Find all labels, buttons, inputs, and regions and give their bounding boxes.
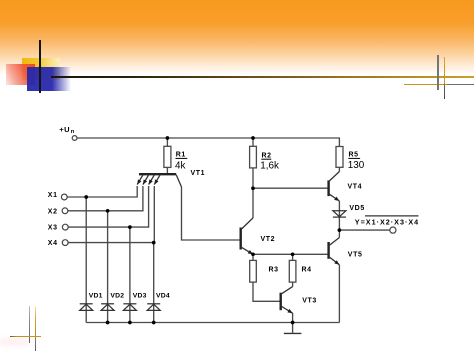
VT2 emitter diagonal — [241, 247, 253, 254]
svg-text:1,6k: 1,6k — [260, 161, 279, 172]
transistor VT1 (multi-emitter) base bar — [139, 173, 176, 175]
terminal +Up — [72, 136, 77, 141]
main horizontal header line — [51, 76, 474, 78]
diode VD4 — [147, 304, 160, 311]
wire: VD3 branch down — [129, 227, 131, 322]
junction node: R4 top — [291, 252, 295, 256]
svg-text:X1: X1 — [48, 192, 58, 199]
bottom-left decoration: gold horizontal line — [10, 336, 41, 337]
VT1 emitter 3 diagonal — [149, 175, 155, 185]
resistor R1 — [164, 146, 171, 167]
bottom-left decoration: faint pink smudge — [0, 338, 30, 346]
svg-text:VD1: VD1 — [89, 292, 103, 299]
blue square core (top-left decoration) — [27, 67, 52, 91]
junction node: VT2 emitter — [251, 252, 255, 256]
wire: VD1 branch down — [85, 197, 87, 323]
wire: R2 top lead — [252, 138, 254, 146]
transistor VT5 base bar — [327, 242, 329, 259]
VT3 emitter arrow — [287, 309, 292, 313]
wire: VT2 emitter node rail to VT5 base — [253, 253, 328, 255]
junction node: R1 at top rail — [166, 136, 170, 140]
VT1 emitter 4 diagonal — [154, 175, 160, 185]
VT3 emitter diagonal — [281, 306, 293, 313]
wire: R3 bottom to VT3 base — [253, 282, 280, 301]
wire: +Up top rail to R5 — [77, 138, 339, 147]
junction node: X3/VD3 — [128, 225, 132, 229]
VT2 collector diagonal — [241, 218, 253, 230]
svg-text:4k: 4k — [175, 160, 185, 171]
wire: output node to terminal Y — [339, 229, 390, 231]
transistor VT2 base bar — [239, 228, 241, 250]
VT4 emitter diagonal — [329, 194, 340, 201]
bottom-left decoration: gray vertical line — [29, 306, 30, 343]
transistor VT3 base bar — [280, 293, 282, 311]
svg-text:VD3: VD3 — [133, 292, 147, 299]
wire: R2 bottom to VT2 collector node — [252, 168, 254, 218]
wire: VT3 emitter to ground rail — [292, 313, 294, 323]
wire: R1 bottom lead to VT1 base — [166, 167, 168, 173]
terminal X2 — [62, 208, 68, 214]
VT1 emitter 4 arrow — [154, 179, 158, 184]
svg-text:п: п — [71, 129, 75, 135]
junction node: output — [338, 228, 342, 232]
svg-text:130: 130 — [348, 160, 365, 171]
VT2 emitter arrow — [248, 250, 253, 254]
wire: VT5 collector vertical to output node — [338, 230, 340, 237]
junction node: R2/VT4 base — [251, 186, 255, 190]
VT1 emitter 3 arrow — [149, 179, 153, 184]
bottom-left decoration: gold vertical line — [35, 307, 36, 351]
resistor R2 — [250, 146, 257, 168]
wire: R1 top lead — [166, 138, 168, 146]
wire: R4 top lead — [292, 254, 294, 260]
svg-text:+U: +U — [59, 125, 70, 134]
svg-text:X3: X3 — [48, 225, 58, 232]
wire: VT4 collector vertical to R5 — [338, 147, 340, 172]
ground symbol bar — [284, 332, 302, 334]
transistor VT4 base bar — [327, 180, 329, 196]
junction node: R2 at top rail — [251, 136, 255, 140]
diode VD2 — [101, 304, 114, 311]
right decoration: gray vertical line — [437, 55, 438, 90]
right decoration: gold/gray vertical line — [444, 57, 445, 99]
fraction line under R1 — [176, 158, 188, 159]
wire: X4 input to emitter 4 — [68, 186, 154, 243]
wire: bottom ground rail — [86, 322, 339, 324]
VT1 collector diagonal — [176, 175, 181, 187]
svg-text:VT5: VT5 — [348, 251, 363, 258]
terminal Y output — [390, 227, 396, 233]
junction node: X4/VD4 — [152, 241, 156, 245]
VT5 emitter diagonal — [329, 257, 340, 265]
svg-text:VD4: VD4 — [156, 292, 170, 299]
junction node: X2/VD2 — [106, 209, 110, 213]
wire: VT1 collector to VT2 base — [182, 187, 240, 240]
resistor R4 — [289, 260, 296, 282]
svg-text:R5: R5 — [349, 152, 359, 159]
svg-text:X2: X2 — [48, 208, 58, 215]
blue square gradient tail — [52, 67, 71, 91]
fraction line under R5 — [348, 158, 360, 159]
junction node: VD3 at rail — [128, 321, 132, 325]
VT1 emitter 1 diagonal — [137, 175, 143, 185]
svg-text:VD5: VD5 — [349, 205, 364, 212]
wire: VD4 branch down — [153, 243, 155, 323]
VT4 collector diagonal — [329, 172, 340, 182]
svg-text:R4: R4 — [302, 267, 312, 274]
orange gradient header background — [0, 0, 474, 90]
VT4 emitter arrow — [334, 197, 339, 201]
VT3 collector diagonal — [281, 287, 293, 295]
resistor R3 — [250, 260, 257, 282]
right decoration: second horizontal line — [404, 84, 474, 85]
svg-text:X4: X4 — [48, 240, 58, 247]
red square (top-left decoration) — [6, 64, 35, 85]
yellow square (top-left decoration) — [22, 58, 60, 80]
svg-text:Y=X1·X2·X3·X4: Y=X1·X2·X3·X4 — [355, 217, 419, 226]
overbar on X1·X2·X3·X4 — [365, 215, 419, 216]
junction node: X1/VD1 — [84, 195, 88, 199]
svg-text:VT3: VT3 — [302, 297, 317, 304]
diode VD1 — [80, 304, 93, 311]
wire: X1 input to emitter 1 — [67, 186, 137, 197]
svg-text:R1: R1 — [176, 151, 186, 158]
svg-text:VT4: VT4 — [348, 183, 363, 190]
wire: VD2 branch down — [107, 211, 109, 323]
wire: VT4 emitter to VD5 to output node — [338, 201, 340, 230]
black vertical line (top-left) — [39, 40, 41, 93]
terminal X4 — [62, 240, 68, 246]
junction node: VD2 at rail — [106, 321, 110, 325]
svg-text:R3: R3 — [269, 267, 279, 274]
VT5 collector diagonal — [329, 238, 340, 246]
svg-text:VT2: VT2 — [261, 236, 276, 243]
svg-text:VT1: VT1 — [191, 170, 206, 177]
terminal X1 — [61, 194, 67, 200]
resistor R5 — [336, 147, 343, 168]
svg-text:R2: R2 — [262, 153, 272, 160]
wire: node under R2 to VT4 base — [253, 187, 328, 189]
VT1 emitter 1 arrow — [137, 179, 141, 184]
junction node: ground at rail — [291, 321, 295, 325]
svg-text:VD2: VD2 — [110, 292, 124, 299]
diode VD5 — [333, 211, 346, 217]
terminal X3 — [62, 224, 68, 230]
VT5 emitter arrow — [334, 260, 339, 265]
diode VD3 — [123, 304, 136, 311]
wire: VT5 emitter down to ground rail — [338, 265, 340, 323]
junction node: VD4 at rail — [152, 321, 156, 325]
wire: X2 input to emitter 2 — [68, 186, 143, 211]
fraction line under R2 — [261, 159, 271, 160]
VT1 emitter 2 diagonal — [143, 175, 149, 185]
wire: ground symbol stem — [292, 323, 294, 333]
wire: R3 top lead — [252, 254, 254, 260]
wire: X3 input to emitter 3 — [68, 186, 148, 227]
wire: R4 bottom lead — [292, 282, 294, 287]
VT1 emitter 2 arrow — [143, 179, 147, 184]
